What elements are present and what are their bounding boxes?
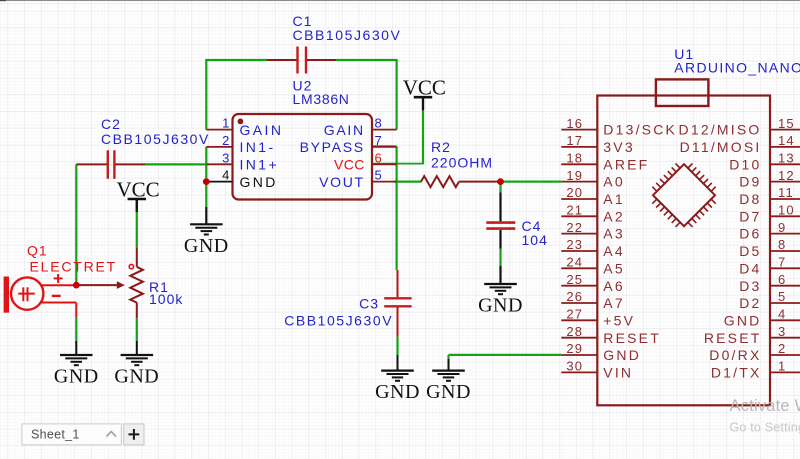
U1 pin 13 (D10)	[729, 151, 800, 173]
svg-text:2: 2	[222, 133, 229, 148]
wire mic minus to ground	[75, 318, 77, 341]
svg-text:D3: D3	[739, 278, 761, 294]
U1 pin 17 (3V3)	[561, 133, 635, 155]
wire R2 to A0	[501, 181, 562, 183]
svg-text:D6: D6	[739, 226, 761, 242]
junction mic+/C2/R1 wiper	[73, 282, 80, 289]
wire GND pin29	[449, 355, 562, 359]
svg-text:GND: GND	[184, 235, 229, 257]
svg-text:28: 28	[566, 324, 583, 339]
wire pin2 to pin4 vertical	[205, 147, 207, 207]
svg-text:8: 8	[778, 237, 786, 252]
svg-text:29: 29	[566, 341, 583, 356]
svg-text:A2: A2	[603, 208, 625, 224]
ground mic	[54, 355, 99, 388]
svg-text:5: 5	[778, 289, 786, 304]
wire C1 left to pin1 net	[206, 59, 267, 130]
svg-text:12: 12	[778, 168, 795, 183]
VCC right stem	[422, 97, 424, 110]
svg-text:A7: A7	[603, 295, 625, 311]
svg-text:19: 19	[566, 168, 583, 183]
svg-text:8: 8	[375, 116, 382, 131]
svg-text:GAIN: GAIN	[324, 122, 365, 138]
U1 pin 28 (RESET)	[561, 324, 661, 346]
svg-text:18: 18	[566, 151, 583, 166]
svg-text:GND: GND	[114, 366, 159, 388]
svg-text:15: 15	[778, 116, 795, 131]
U1 pin 23 (A4)	[561, 237, 625, 259]
U1 pin 10 (D7)	[739, 203, 800, 225]
svg-text:23: 23	[566, 237, 583, 252]
C2 reference label	[101, 116, 121, 132]
svg-text:1: 1	[778, 359, 786, 374]
U1 pin 27 (+5V)	[561, 307, 635, 329]
svg-text:10: 10	[778, 203, 795, 218]
svg-text:GND: GND	[603, 347, 641, 363]
U1 pin 22 (A3)	[561, 220, 625, 242]
U1 pin 11 (D8)	[739, 185, 800, 207]
svg-text:24: 24	[566, 255, 583, 270]
svg-text:GND: GND	[375, 381, 420, 403]
svg-text:6: 6	[778, 272, 786, 287]
R1 reference label	[149, 279, 169, 295]
svg-text:6: 6	[375, 150, 382, 165]
R2 reference label	[431, 139, 451, 155]
junction R2/C4/A0	[497, 178, 504, 185]
svg-text:RESET: RESET	[704, 330, 762, 346]
svg-text:VCC: VCC	[334, 157, 365, 173]
U2 pin 4	[209, 168, 233, 183]
svg-text:VOUT: VOUT	[319, 174, 365, 190]
U2 pin4 ground stem	[205, 207, 207, 224]
U1 reference label	[674, 46, 694, 62]
U1 value label ARDUINO_NANO3.0	[674, 60, 800, 76]
U1 pin 12 (D9)	[739, 168, 800, 190]
capacitor C3	[384, 270, 411, 337]
svg-text:13: 13	[778, 151, 795, 166]
svg-text:GND: GND	[240, 174, 278, 190]
U2 pin 1	[206, 116, 232, 131]
ground U2 pin4	[184, 224, 229, 256]
op-amp U2 LM386N body	[233, 114, 373, 200]
svg-text:A6: A6	[603, 278, 625, 294]
U2 pin 5	[372, 168, 397, 183]
U1 pin 14 (D11/MOSI)	[680, 133, 800, 155]
mcu U1 ARDUINO_NANO body	[597, 96, 770, 406]
svg-text:26: 26	[566, 289, 583, 304]
UI sheet tab Sheet_1	[22, 424, 121, 445]
wire C4 bottom to ground	[499, 249, 501, 266]
U1 pin 15 (D12/MISO)	[679, 116, 800, 138]
wire VCC to R1	[136, 211, 138, 248]
svg-text:D12/MISO: D12/MISO	[679, 122, 762, 138]
U2 left pin names	[240, 122, 284, 190]
svg-text:Activate Wind: Activate Wind	[730, 397, 800, 415]
U1 pin 16 (D13/SCK)	[561, 116, 677, 138]
svg-text:GND: GND	[724, 312, 762, 328]
svg-text:3V3: 3V3	[603, 139, 635, 155]
resistor R2	[421, 176, 501, 187]
svg-text:17: 17	[566, 133, 583, 148]
U1 pin 5 (D2)	[739, 289, 800, 311]
svg-text:BYPASS: BYPASS	[300, 139, 365, 155]
U1 pin 9 (D6)	[739, 220, 800, 242]
svg-text:3: 3	[778, 324, 786, 339]
svg-text:30: 30	[566, 359, 583, 374]
svg-text:11: 11	[778, 185, 794, 200]
U1 pin 21 (A2)	[561, 203, 625, 225]
U2 right pin names	[300, 122, 365, 190]
svg-text:A5: A5	[603, 260, 625, 276]
wire pin7 to C3	[372, 146, 397, 270]
U1 pin 6 (D3)	[739, 272, 800, 294]
U1 pin 4 (GND)	[724, 307, 800, 329]
svg-text:ARDUINO_NANO3.0: ARDUINO_NANO3.0	[674, 60, 800, 76]
svg-text:IN1-: IN1-	[240, 139, 276, 155]
svg-text:Go to Settings: Go to Settings	[730, 421, 800, 435]
Q1 reference label	[27, 243, 48, 259]
svg-text:2: 2	[778, 341, 786, 356]
svg-text:CBB105J630V: CBB105J630V	[101, 131, 210, 147]
C4 ground stem	[499, 266, 501, 284]
U2 pin 6	[372, 150, 397, 165]
wire VOUT to R2	[394, 181, 422, 183]
R2 value label	[431, 154, 493, 170]
U1 pin 25 (A6)	[561, 272, 625, 294]
svg-text:C2: C2	[101, 116, 121, 132]
svg-text:D2: D2	[739, 295, 761, 311]
watermark Activate Windows	[730, 397, 800, 434]
U2 pin 8	[372, 116, 397, 131]
svg-text:C3: C3	[359, 296, 379, 312]
ground R1	[114, 355, 159, 388]
svg-text:ELECTRET: ELECTRET	[30, 259, 118, 275]
R1 top circle marker	[129, 264, 133, 268]
ground C4	[478, 284, 523, 317]
svg-text:14: 14	[778, 133, 795, 148]
R1 ground stem	[136, 341, 138, 355]
svg-text:A3: A3	[603, 226, 625, 242]
U1 pin 2 (D0/RX)	[709, 341, 800, 363]
U1 pin 3 (RESET)	[704, 324, 800, 346]
R1 wiper arrow	[76, 281, 125, 289]
C4 value label	[522, 232, 548, 248]
U1 pin 7 (D4)	[739, 255, 800, 277]
wire C2 down to mic junction	[75, 164, 77, 283]
svg-text:LM386N: LM386N	[293, 91, 350, 107]
power flag VCC (left)	[117, 177, 160, 212]
C3 reference label	[359, 296, 379, 312]
U2 pin 7	[372, 133, 397, 148]
svg-text:+5V: +5V	[603, 312, 635, 328]
svg-text:VIN: VIN	[603, 365, 633, 381]
svg-text:D7: D7	[739, 208, 761, 224]
ground pin29	[426, 371, 471, 404]
svg-text:22: 22	[566, 220, 583, 235]
svg-text:R2: R2	[431, 139, 451, 155]
svg-text:D10: D10	[729, 156, 761, 172]
C3 value label	[284, 313, 393, 329]
wire pin6 to VCC	[372, 110, 423, 164]
svg-text:9: 9	[778, 220, 786, 235]
svg-text:GND: GND	[54, 366, 99, 388]
U2 reference label	[293, 78, 313, 94]
svg-text:D5: D5	[739, 243, 761, 259]
svg-text:D4: D4	[739, 260, 761, 276]
capacitor C4	[486, 192, 515, 248]
svg-text:D1/TX: D1/TX	[711, 365, 762, 381]
capacitor C2	[76, 150, 145, 179]
U1 pin 18 (AREF)	[561, 151, 649, 173]
C4 reference label	[522, 218, 542, 234]
wire C1 right to pin8 net	[336, 59, 397, 130]
svg-text:D8: D8	[739, 191, 761, 207]
svg-text:A4: A4	[603, 243, 625, 259]
U2 pin-1 marker dot	[238, 119, 244, 125]
U1 pin 8 (D5)	[739, 237, 800, 259]
svg-text:GAIN: GAIN	[240, 122, 284, 138]
C1 reference label	[293, 13, 313, 29]
pin29 ground stem	[448, 359, 450, 371]
wire C2 to IN1+	[145, 163, 206, 165]
svg-text:1: 1	[222, 116, 229, 131]
U1 pin 29 (GND)	[561, 341, 641, 363]
svg-text:7: 7	[375, 133, 382, 148]
wire R1 bottom to ground	[136, 318, 138, 341]
ground C3	[375, 371, 420, 404]
svg-text:AREF: AREF	[603, 156, 649, 172]
svg-text:A1: A1	[603, 191, 625, 207]
U2 pin 3	[206, 150, 232, 165]
svg-text:GND: GND	[426, 381, 471, 403]
svg-text:GND: GND	[478, 295, 523, 317]
svg-text:A0: A0	[603, 174, 625, 190]
svg-text:D9: D9	[739, 174, 761, 190]
svg-text:16: 16	[566, 116, 583, 131]
svg-text:21: 21	[566, 203, 583, 218]
svg-text:20: 20	[566, 185, 583, 200]
microphone Q1 ELECTRET symbol	[4, 274, 77, 318]
junction U2 pin4 GND	[203, 178, 210, 185]
top toolbar edge	[0, 0, 800, 1]
svg-text:7: 7	[778, 255, 786, 270]
svg-text:D0/RX: D0/RX	[709, 347, 761, 363]
capacitor C1	[267, 47, 336, 74]
svg-text:100k: 100k	[149, 291, 183, 307]
C1 value label	[293, 27, 402, 43]
wire C4 top	[499, 183, 501, 192]
svg-text:5: 5	[375, 168, 382, 183]
U1 pin 19 (A0)	[561, 168, 625, 190]
svg-text:25: 25	[566, 272, 583, 287]
R1 value label	[149, 291, 183, 307]
U1 pin 26 (A7)	[561, 289, 625, 311]
svg-text:IN1+: IN1+	[240, 157, 280, 173]
U1 pin 30 (VIN)	[561, 359, 633, 381]
svg-text:27: 27	[566, 307, 583, 322]
U1 USB connector box	[656, 79, 709, 106]
svg-text:VCC: VCC	[117, 177, 160, 201]
Q1 value label ELECTRET	[30, 259, 118, 275]
mic ground stem	[75, 341, 77, 355]
U1 inner QFP chip glyph	[652, 164, 715, 227]
power flag VCC (right)	[403, 76, 446, 111]
svg-text:Q1: Q1	[27, 243, 48, 259]
UI add-sheet button	[124, 424, 144, 445]
U2 pin 2	[206, 133, 232, 148]
svg-text:RESET: RESET	[603, 330, 661, 346]
U2 value label LM386N	[293, 91, 350, 107]
svg-text:4: 4	[778, 307, 786, 322]
U1 pin 24 (A5)	[561, 255, 625, 277]
svg-text:3: 3	[222, 150, 229, 165]
wire C3 bottom to ground	[396, 337, 398, 355]
svg-text:4: 4	[222, 168, 229, 183]
svg-text:VCC: VCC	[403, 76, 446, 100]
svg-text:Sheet_1: Sheet_1	[31, 427, 80, 441]
svg-text:CBB105J630V: CBB105J630V	[284, 313, 393, 329]
C3 ground stem	[397, 355, 399, 371]
svg-text:220OHM: 220OHM	[431, 154, 493, 170]
resistor R1 (potentiometer)	[130, 248, 143, 319]
svg-text:D13/SCK: D13/SCK	[603, 122, 677, 138]
VCC left stem	[136, 199, 138, 212]
C2 value label	[101, 131, 210, 147]
svg-text:104: 104	[522, 232, 548, 248]
U1 pin 20 (A1)	[561, 185, 625, 207]
svg-text:CBB105J630V: CBB105J630V	[293, 27, 402, 43]
svg-text:D11/MOSI: D11/MOSI	[680, 139, 762, 155]
U1 pin 1 (D1/TX)	[711, 359, 800, 381]
